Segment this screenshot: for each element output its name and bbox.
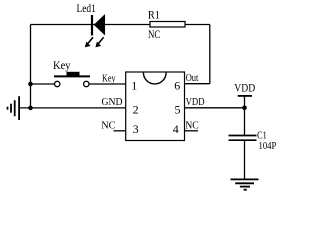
svg-text:VDD: VDD bbox=[186, 97, 205, 108]
IC U1 body bbox=[126, 72, 185, 141]
switch Key (push button) bbox=[54, 72, 90, 87]
IC notch bbox=[143, 73, 166, 84]
wire right vertical drop from top rail to pin 6 bbox=[209, 25, 211, 84]
svg-text:5: 5 bbox=[175, 102, 181, 116]
wire key row: right switch terminal to pin 1 bbox=[89, 83, 126, 85]
power VDD symbol bbox=[238, 95, 252, 97]
svg-text:NC: NC bbox=[185, 121, 199, 132]
node junction at VDD / C1 bbox=[242, 106, 247, 111]
wire pin 6 Out to vertical drop bbox=[185, 83, 210, 85]
svg-text:104P: 104P bbox=[259, 140, 277, 152]
ground (left, rotated) bbox=[8, 96, 20, 120]
svg-text:R1: R1 bbox=[148, 10, 160, 22]
wire VDD bar stub down to node bbox=[244, 96, 246, 108]
wire GND row: left ground to pin 2 bbox=[19, 107, 126, 109]
wire node down to capacitor top plate bbox=[244, 108, 246, 135]
wire pin 5 VDD row to capacitor node bbox=[185, 107, 245, 109]
resistor R1 bbox=[150, 22, 185, 28]
svg-text:VDD: VDD bbox=[234, 83, 255, 95]
svg-text:Led1: Led1 bbox=[77, 3, 96, 15]
svg-text:3: 3 bbox=[133, 122, 139, 136]
ground (bottom right) bbox=[231, 179, 259, 189]
svg-text:6: 6 bbox=[174, 79, 180, 93]
wire pin 4 stub bbox=[185, 130, 199, 132]
svg-text:Key: Key bbox=[53, 60, 71, 72]
wire top rail from left corner through LED and R1 to right corner bbox=[31, 24, 210, 26]
svg-text:2: 2 bbox=[133, 102, 139, 116]
LED Led1 bbox=[85, 15, 105, 48]
svg-text:4: 4 bbox=[173, 122, 179, 136]
wire capacitor bottom plate down to ground bbox=[244, 141, 246, 180]
wire pin 3 stub bbox=[114, 130, 126, 132]
wire left vertical rail bbox=[30, 25, 32, 109]
capacitor C1 bbox=[229, 136, 257, 141]
node junction on rail at GND row bbox=[28, 106, 33, 111]
svg-text:NC: NC bbox=[101, 121, 115, 132]
wire key row: rail to left switch terminal bbox=[31, 83, 55, 85]
svg-text:1: 1 bbox=[131, 79, 137, 93]
node junction on rail at key row bbox=[28, 82, 33, 87]
svg-text:Key: Key bbox=[102, 73, 116, 84]
svg-text:NC: NC bbox=[148, 29, 160, 41]
svg-text:GND: GND bbox=[102, 97, 124, 108]
svg-text:Out: Out bbox=[186, 73, 199, 84]
